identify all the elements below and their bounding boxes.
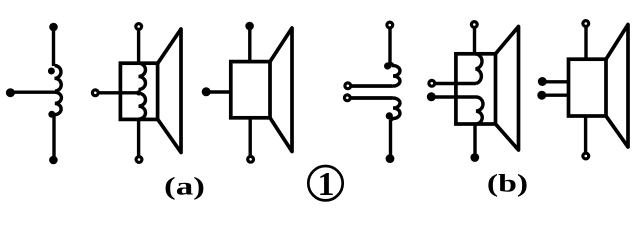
receiver (b) bottom lead wire [389,120,392,155]
speaker A2 top terminal [245,22,254,31]
receiver (b) coil top junction dot [384,62,391,69]
speaker A1 coil lower winding [139,93,146,119]
receiver (b) upper tap wire [351,84,392,87]
speaker B1 upper tap wire [435,82,476,85]
svg-text:(a): (a) [164,172,205,200]
receiver (b) lower tap terminal ring [344,95,350,101]
speaker A1 horn [158,29,181,153]
speaker A1 bottom lead wire [137,119,140,156]
speaker B2 bottom lead wire [584,116,587,153]
speaker B2 horn [606,25,628,148]
receiver (b) coil bottom junction dot [386,112,393,119]
speaker B2 lower tap terminal [537,91,546,100]
speaker B1 bottom lead wire [473,124,476,154]
receiver (b) coil upper winding [351,64,400,87]
receiver (a) top lead wire [52,27,55,66]
speaker B2 bottom terminal ring [583,153,589,159]
speaker A2 bottom terminal ring [248,156,254,162]
receiver (a) coil top junction dot [48,68,55,75]
receiver (b) bottom terminal [386,154,395,163]
receiver (a) coil upper winding [55,66,62,92]
speaker B2 upper tap wire [542,80,568,83]
receiver (a) top terminal [49,23,58,32]
speaker A1 tap wire [99,91,139,94]
receiver (b) top terminal ring [387,22,393,28]
speaker B1 lower tap terminal [427,92,436,101]
speaker B1 bottom terminal [470,153,479,162]
receiver (b) top lead wire [388,29,391,65]
speaker B1 top lead wire [473,28,476,54]
svg-text:(b): (b) [487,169,528,197]
receiver (a) coil bottom junction dot [48,111,55,118]
speaker B1 box [456,54,496,124]
speaker A1 coil upper winding [139,63,146,89]
speaker A1 coil tap junction [136,90,141,95]
svg-text:1: 1 [318,166,335,203]
receiver (a) tap wire [10,90,55,93]
speaker A1 top lead wire [137,30,140,63]
speaker B1 horn [496,27,519,151]
speaker A2 box [231,62,270,118]
receiver (b) coil lower winding [351,98,400,120]
speaker B1 coil lower winding [475,97,484,124]
speaker B1 coil upper winding [475,54,483,84]
speaker B1 lower tap wire [431,95,476,98]
speaker B2 upper tap terminal [538,77,547,86]
speaker A2 tap wire [206,90,231,93]
receiver (a) coil lower winding [55,92,62,114]
speaker A2 bottom lead wire [248,118,251,156]
receiver (a) bottom lead wire [52,114,55,158]
speaker A2 tap terminal [202,87,211,96]
speaker A1 box [120,63,157,119]
speaker B2 box [569,59,607,116]
speaker A2 horn [270,28,292,152]
speaker B2 top terminal ring [583,21,589,27]
speaker B2 lower tap wire [542,93,569,96]
speaker A1 bottom terminal ring [136,157,142,163]
speaker A1 top terminal ring [136,24,142,30]
receiver (a) tap terminal [6,88,15,97]
receiver (b) upper tap terminal ring [345,83,351,89]
speaker A2 top lead wire [248,26,251,62]
speaker B1 upper tap terminal ring [429,80,435,86]
speaker A1 tap terminal ring [92,90,98,96]
figure number circle [308,166,342,200]
speaker B2 top lead wire [584,28,587,60]
receiver (b) lower tap wire [351,96,392,99]
receiver (a) bottom terminal [49,156,58,165]
speaker B1 top terminal ring [471,22,477,28]
